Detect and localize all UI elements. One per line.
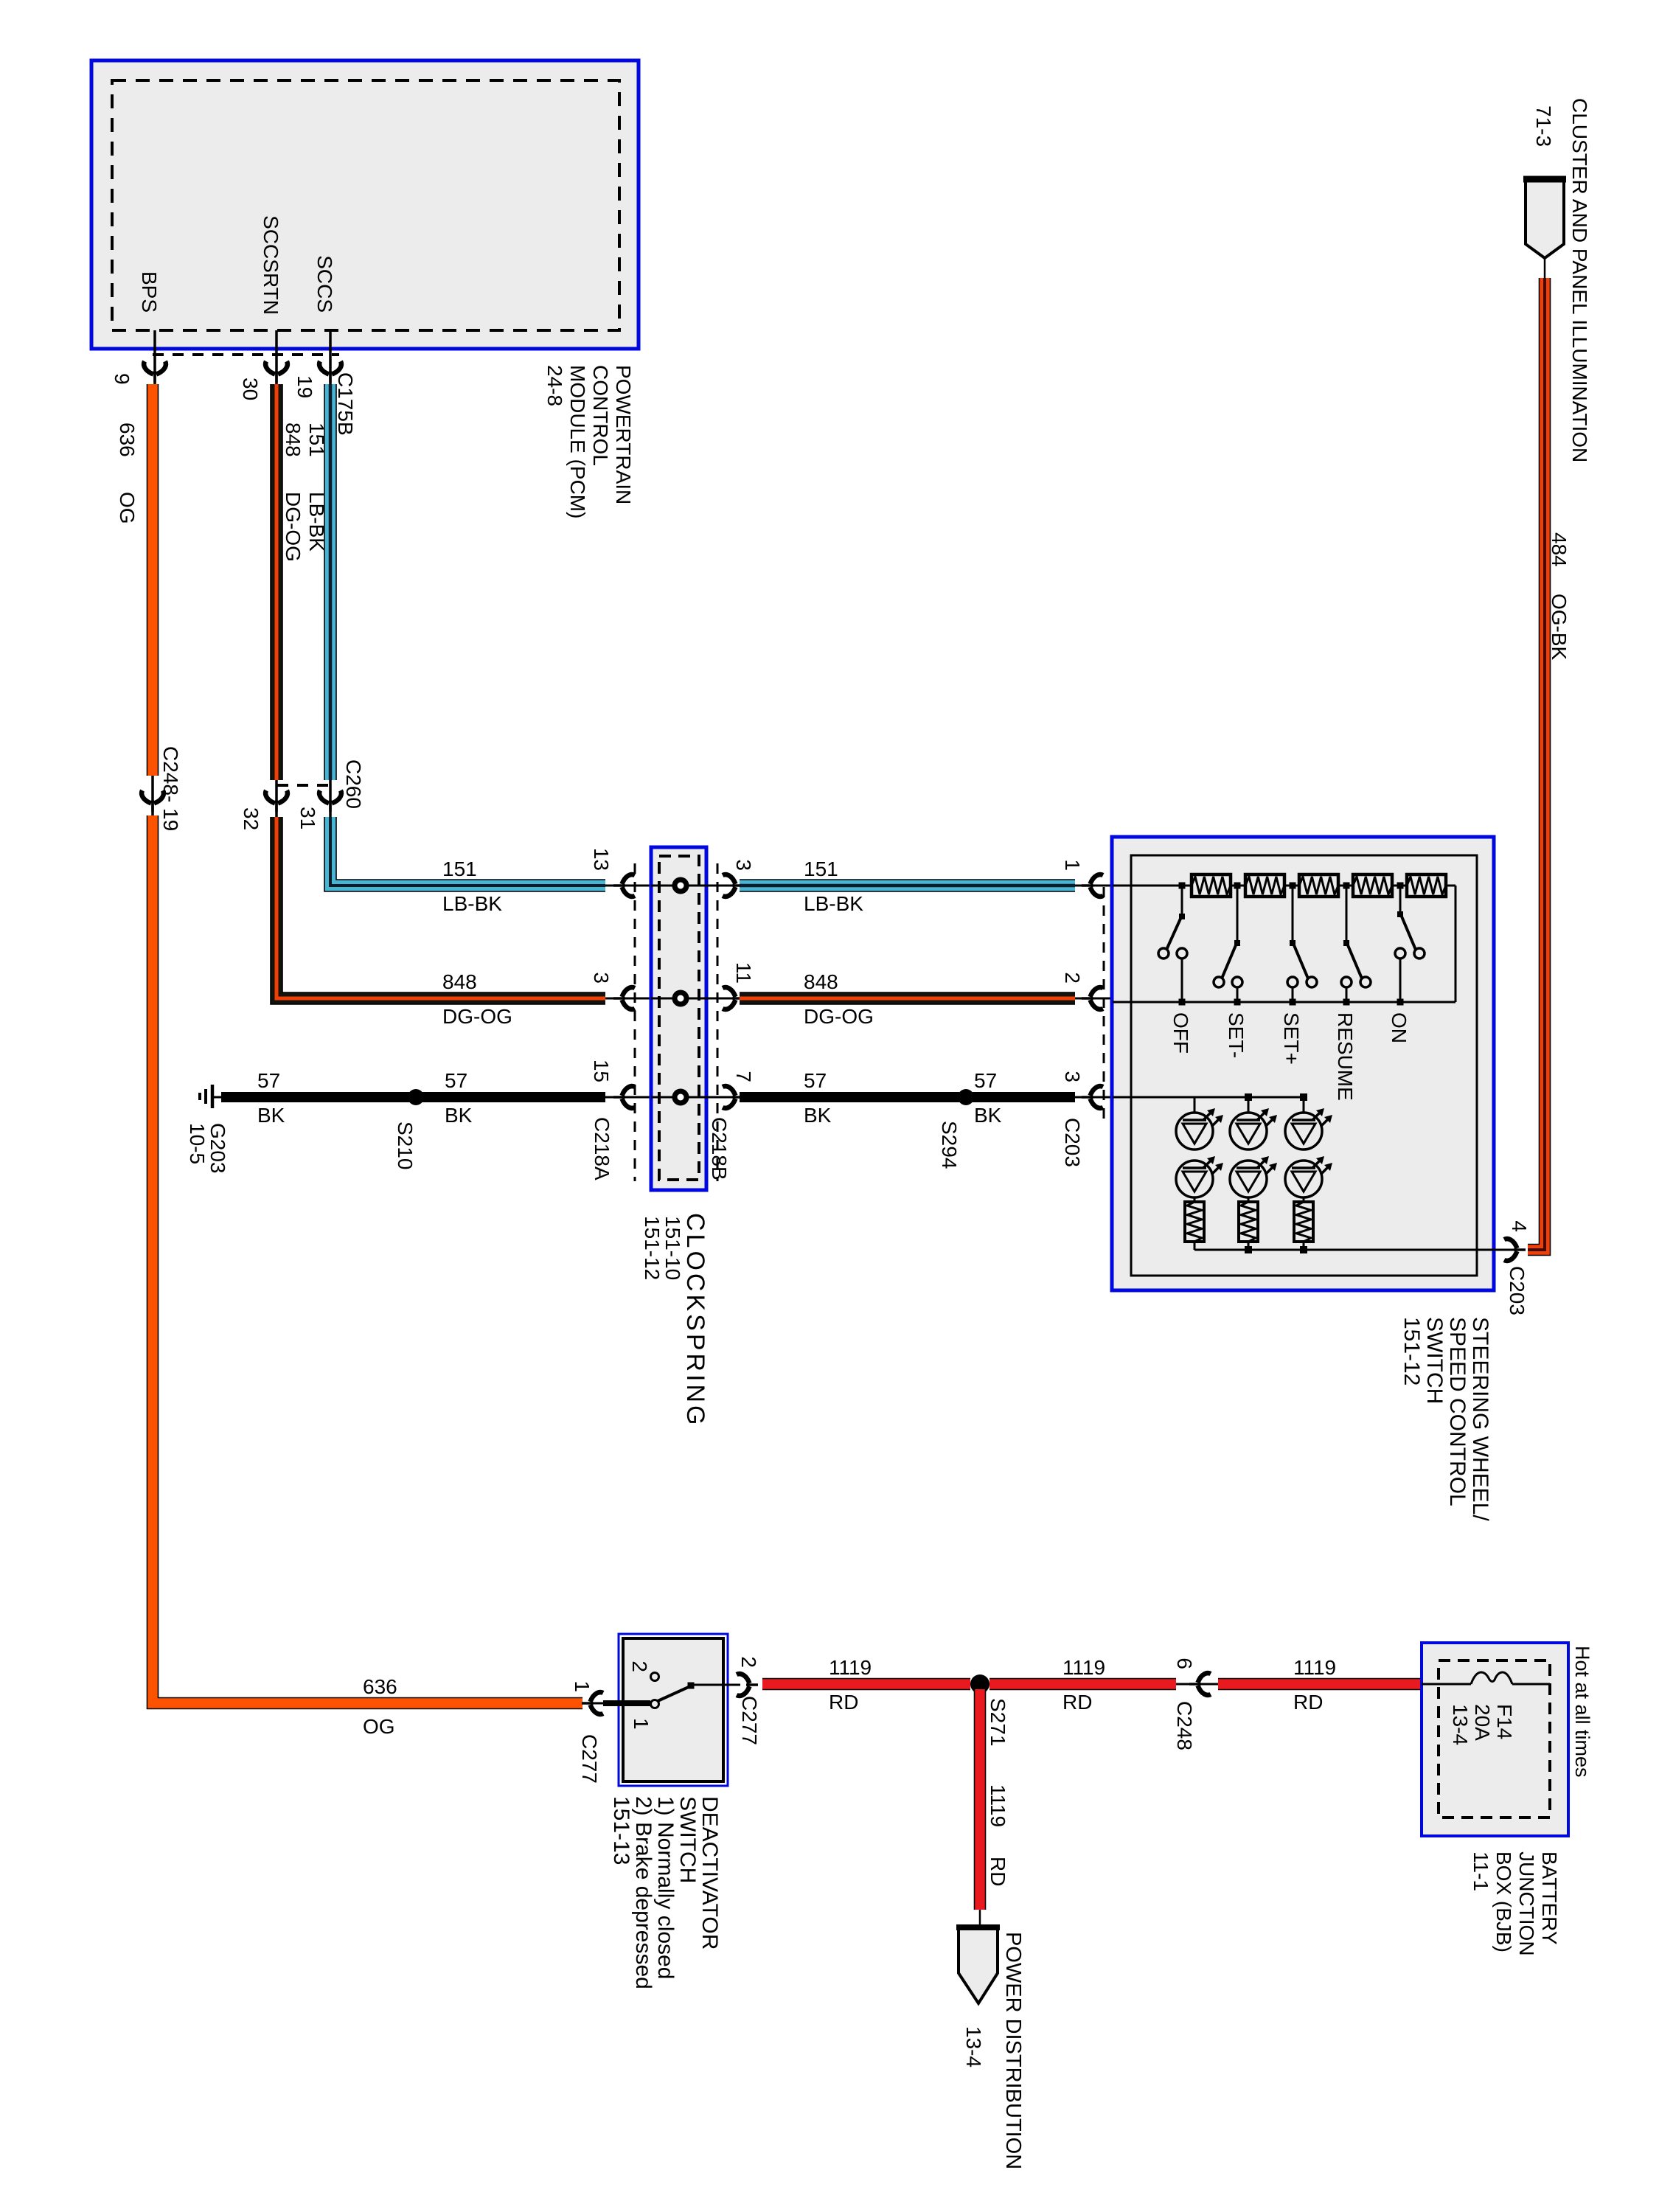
svg-text:32: 32 [240, 807, 262, 830]
svg-text:DG-OG: DG-OG [282, 492, 305, 562]
svg-text:Hot at all times: Hot at all times [1571, 1646, 1593, 1778]
svg-text:SCCSRTN: SCCSRTN [260, 215, 282, 315]
svg-text:OG-BK: OG-BK [1548, 594, 1571, 661]
svg-text:SWITCH: SWITCH [675, 1796, 700, 1883]
svg-text:G203: G203 [206, 1123, 229, 1174]
svg-text:151-12: 151-12 [1399, 1317, 1424, 1385]
svg-text:71-3: 71-3 [1532, 105, 1555, 147]
svg-text:C260: C260 [342, 759, 365, 809]
svg-text:3: 3 [1061, 1071, 1084, 1082]
svg-text:OG: OG [116, 492, 139, 524]
svg-text:BK: BK [257, 1104, 285, 1127]
svg-text:SPEED CONTROL: SPEED CONTROL [1445, 1317, 1470, 1506]
svg-text:848: 848 [282, 422, 305, 457]
svg-text:ON: ON [1388, 1012, 1411, 1043]
svg-text:OFF: OFF [1169, 1012, 1192, 1054]
svg-text:SCCS: SCCS [313, 255, 336, 313]
svg-text:C203: C203 [1506, 1266, 1528, 1315]
svg-text:10-5: 10-5 [186, 1123, 209, 1164]
svg-text:C248: C248 [1173, 1701, 1196, 1750]
svg-text:DEACTIVATOR: DEACTIVATOR [698, 1796, 722, 1950]
svg-text:SWITCH: SWITCH [1422, 1317, 1447, 1404]
svg-text:6: 6 [1173, 1658, 1196, 1669]
svg-text:C218B: C218B [708, 1117, 731, 1180]
svg-text:484: 484 [1548, 532, 1571, 567]
svg-text:151: 151 [305, 422, 328, 457]
svg-text:MODULE (PCM): MODULE (PCM) [566, 365, 589, 518]
svg-text:BATTERY: BATTERY [1538, 1851, 1561, 1945]
svg-text:CONTROL: CONTROL [589, 365, 612, 466]
svg-text:DG-OG: DG-OG [442, 1005, 512, 1028]
svg-text:57: 57 [804, 1069, 827, 1092]
svg-text:848: 848 [804, 970, 838, 993]
svg-text:13-4: 13-4 [962, 2026, 985, 2067]
svg-text:C277: C277 [578, 1734, 601, 1784]
svg-text:13-4: 13-4 [1449, 1704, 1472, 1745]
svg-text:C175B: C175B [334, 372, 357, 436]
svg-text:RD: RD [829, 1691, 858, 1714]
svg-text:2: 2 [737, 1656, 760, 1668]
svg-text:1) Normally closed: 1) Normally closed [653, 1796, 678, 1979]
svg-text:S210: S210 [394, 1121, 417, 1169]
svg-text:BK: BK [445, 1104, 473, 1127]
svg-text:30: 30 [239, 378, 262, 400]
svg-text:LB-BK: LB-BK [442, 892, 502, 915]
svg-text:C248- 19: C248- 19 [159, 746, 182, 831]
svg-text:1: 1 [571, 1680, 594, 1692]
svg-text:2: 2 [1061, 972, 1084, 984]
svg-text:1: 1 [630, 1718, 653, 1730]
svg-text:31: 31 [296, 807, 319, 829]
svg-text:C277: C277 [738, 1696, 761, 1745]
svg-text:F14: F14 [1493, 1704, 1516, 1739]
svg-text:9: 9 [111, 373, 133, 385]
svg-text:1119: 1119 [829, 1656, 872, 1679]
svg-text:3: 3 [732, 859, 755, 871]
svg-text:BK: BK [804, 1104, 832, 1127]
svg-text:C203: C203 [1061, 1118, 1084, 1167]
svg-text:57: 57 [445, 1069, 467, 1092]
svg-text:151: 151 [442, 858, 477, 880]
svg-text:POWERTRAIN: POWERTRAIN [612, 365, 635, 504]
svg-text:11-1: 11-1 [1470, 1851, 1492, 1891]
svg-text:3: 3 [590, 972, 613, 984]
svg-text:24-8: 24-8 [543, 365, 566, 406]
svg-text:LB-BK: LB-BK [305, 492, 328, 552]
svg-text:1119: 1119 [1293, 1656, 1336, 1679]
svg-text:1119: 1119 [1062, 1656, 1105, 1679]
svg-text:11: 11 [732, 962, 755, 984]
svg-text:20A: 20A [1471, 1704, 1494, 1741]
svg-text:SET+: SET+ [1280, 1012, 1303, 1065]
svg-text:RD: RD [1293, 1691, 1323, 1714]
svg-text:13: 13 [590, 848, 613, 871]
svg-text:2) Brake depressed: 2) Brake depressed [631, 1796, 655, 1989]
svg-text:15: 15 [590, 1060, 613, 1082]
svg-text:OG: OG [363, 1715, 395, 1738]
svg-text:848: 848 [442, 970, 477, 993]
svg-text:57: 57 [974, 1069, 997, 1092]
svg-text:636: 636 [116, 422, 139, 457]
svg-text:2: 2 [628, 1660, 651, 1672]
svg-text:7: 7 [732, 1071, 755, 1082]
svg-text:POWER DISTRIBUTION: POWER DISTRIBUTION [1001, 1932, 1025, 2169]
svg-text:1119: 1119 [987, 1784, 1009, 1827]
svg-text:S294: S294 [938, 1121, 961, 1169]
svg-text:151-13: 151-13 [609, 1796, 633, 1865]
svg-text:RESUME: RESUME [1334, 1012, 1357, 1101]
svg-text:151-12: 151-12 [641, 1216, 664, 1280]
svg-text:19: 19 [293, 375, 316, 398]
svg-text:CLUSTER AND PANEL ILLUMINATION: CLUSTER AND PANEL ILLUMINATION [1568, 98, 1591, 462]
svg-text:BPS: BPS [138, 271, 161, 313]
svg-text:RD: RD [987, 1857, 1009, 1886]
svg-text:LB-BK: LB-BK [804, 892, 863, 915]
svg-text:BOX (BJB): BOX (BJB) [1492, 1851, 1515, 1952]
svg-text:S271: S271 [987, 1698, 1009, 1746]
svg-text:DG-OG: DG-OG [804, 1005, 874, 1028]
svg-text:SET-: SET- [1225, 1012, 1248, 1058]
svg-text:BK: BK [974, 1104, 1002, 1127]
svg-text:CLOCKSPRING: CLOCKSPRING [681, 1213, 709, 1428]
svg-text:C218A: C218A [591, 1117, 613, 1180]
svg-text:151: 151 [804, 858, 838, 880]
svg-text:57: 57 [257, 1069, 280, 1092]
svg-text:636: 636 [363, 1675, 397, 1698]
svg-text:151-10: 151-10 [661, 1216, 684, 1280]
svg-text:4: 4 [1508, 1220, 1531, 1232]
svg-text:STEERING WHEEL/: STEERING WHEEL/ [1468, 1317, 1492, 1521]
svg-text:RD: RD [1062, 1691, 1092, 1714]
svg-text:JUNCTION: JUNCTION [1515, 1851, 1538, 1956]
svg-text:1: 1 [1061, 859, 1084, 871]
